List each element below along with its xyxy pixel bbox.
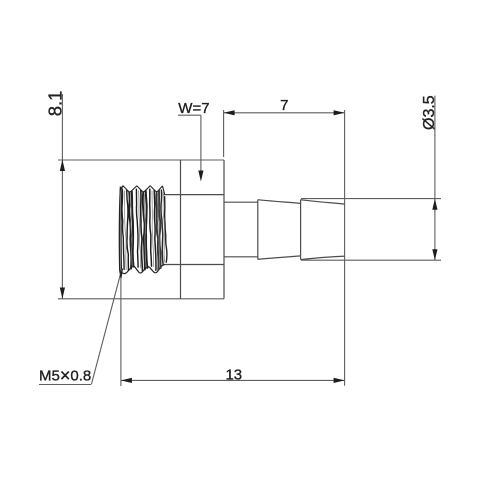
svg-text:W=7: W=7	[178, 100, 209, 117]
svg-text:7: 7	[280, 97, 288, 114]
svg-text:13: 13	[225, 366, 242, 383]
svg-text:8.1: 8.1	[45, 91, 66, 117]
svg-text:Ø3.5: Ø3.5	[421, 95, 438, 130]
svg-text:M5×0.8: M5×0.8	[39, 365, 91, 385]
